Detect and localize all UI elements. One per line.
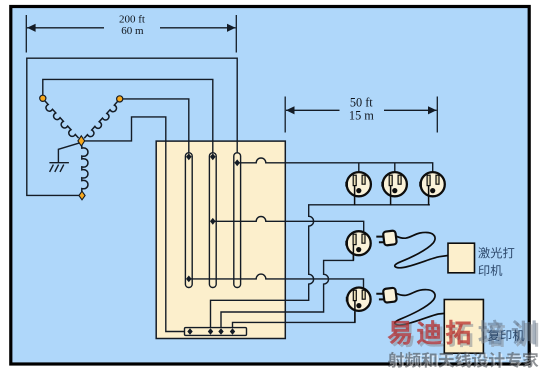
- plug P2 prongs: [376, 294, 384, 300]
- cord from plug P1 to laser printer: [395, 232, 448, 267]
- svg-text:15 m: 15 m: [349, 108, 374, 122]
- branch 2 neutral: bus up over branch3 hot to receptacle 2 bottom: [221, 255, 353, 328]
- copier box: [444, 300, 483, 354]
- receptacle R2 row1: [381, 172, 407, 196]
- branch 1 hot: busbar3 tap, breaker hump, to receptacles row 1: [237, 158, 433, 172]
- branch 1 stubs to receptacle 1 and 2 tops: [359, 163, 395, 172]
- receptacle R5 row3: [346, 288, 371, 311]
- dimension D2 left arrow: [286, 106, 340, 114]
- transformer terminal dot right: [117, 96, 123, 102]
- svg-text:60 m: 60 m: [121, 25, 144, 37]
- wire phase A: bottom coil dot around left/top to busbar 3: [27, 58, 237, 195]
- receptacle R4 row2: [345, 231, 370, 255]
- watermark gray characters: [478, 320, 503, 345]
- dimension D1 left arrow: [27, 24, 104, 32]
- dimension D2 right arrow: [384, 106, 437, 114]
- receptacle R2 neutral stub through face: [390, 186, 392, 206]
- neutral bus terminal diamond x=190: [187, 328, 192, 335]
- receptacle R1 row1: [345, 172, 371, 196]
- busbar 2 feed terminal: [210, 153, 216, 160]
- neutral bus terminal diamond x=210.5: [208, 328, 213, 335]
- receptacle R3 row1: [419, 172, 445, 196]
- wire neutral: wye center to panel neutral bus: [84, 117, 186, 332]
- wire phase C: right coil dot over to busbar 1: [123, 99, 189, 156]
- branch 3 hot: busbar1 tap to receptacle row 3: [189, 274, 364, 288]
- dimension D1 left extension tick: [25, 15, 27, 53]
- transformer terminal dot left: [40, 95, 46, 101]
- branch 3 neutral: bus to receptacle 3 bottom: [233, 312, 355, 328]
- transformer terminal diamond bottom: [79, 191, 85, 200]
- neutral bus terminal diamond x=221: [218, 328, 223, 335]
- plug P2 body: [383, 288, 397, 303]
- label laser printer line 2: [479, 265, 490, 276]
- busbar 1: [185, 153, 192, 288]
- wye center terminal diamond: [78, 136, 85, 146]
- wire phase B: left coil dot up and over to busbar 2: [43, 79, 213, 156]
- receptacle R4 neutral stub through face: [352, 245, 354, 261]
- transformer coil upper-right phase: [84, 102, 117, 139]
- cord from plug P2 to copier: [395, 290, 445, 325]
- branch 2 hot: busbar2 tap to receptacle row 2: [213, 217, 364, 232]
- receptacle R5 neutral stub through face: [354, 301, 356, 323]
- ground lead from wye center: [58, 143, 79, 163]
- dimension D1 right extension tick: [235, 15, 237, 53]
- receptacle R1 neutral stub through face: [354, 186, 356, 206]
- neutral/ground bus bar: [185, 328, 247, 336]
- neutral bus terminal diamond x=232.5: [230, 328, 235, 335]
- label copier: [488, 330, 499, 341]
- busbar 1 feed terminal: [186, 153, 192, 160]
- dimension D1 right arrow: [160, 24, 236, 32]
- busbar 2: [209, 153, 216, 288]
- branch 1 neutral return: receptacle bottoms, hops, to bus: [211, 205, 430, 328]
- receptacle R3 neutral stub through face: [428, 186, 430, 206]
- watermark shadow line 1: [390, 323, 414, 347]
- busbar 3: [234, 153, 241, 288]
- watermark tagline: [388, 352, 404, 368]
- laser printer box: [448, 243, 475, 273]
- transformer coil upper-left phase: [45, 101, 79, 138]
- watermark tagline shadow: [389, 354, 405, 370]
- plug P1 body: [383, 230, 397, 245]
- dimension D2 left extension tick: [284, 97, 286, 133]
- transformer coil lower phase: [82, 145, 88, 191]
- dimension D2 right extension tick: [436, 97, 438, 133]
- breaker panel box: [156, 141, 285, 338]
- watermark red characters: [387, 321, 411, 345]
- label laser printer line 1: [478, 247, 490, 258]
- svg-text:200 ft: 200 ft: [119, 14, 145, 26]
- plug P1 prongs: [376, 237, 384, 243]
- ground symbol: [49, 163, 69, 172]
